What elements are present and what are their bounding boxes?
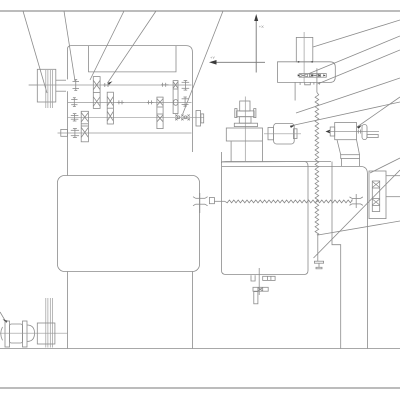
base floor line — [0, 348, 400, 350]
leader to Y-feed motor arrow — [357, 97, 400, 129]
idler square shaft IV — [61, 129, 68, 136]
spline coupling shaft I a — [103, 83, 109, 87]
belt lines lower — [46, 298, 53, 348]
belt pulley block P1 — [37, 69, 56, 102]
vertical elevating screw zigzag — [315, 92, 319, 235]
Y motor coupling ticks — [358, 130, 360, 134]
table surface line and saddle — [222, 166, 367, 348]
border frame bottom line — [0, 387, 400, 389]
Y motor body — [335, 123, 357, 140]
gear hub symbol shaft II left — [71, 98, 77, 107]
border frame top line — [0, 10, 400, 12]
leader to right gearbox — [370, 158, 400, 173]
shaft I centerline — [29, 84, 192, 86]
spline coupling shaft I b — [161, 83, 169, 87]
Y motor centerline — [329, 131, 379, 133]
gear hub symbol shaft I left — [73, 80, 80, 91]
Y motor support sides — [342, 159, 360, 167]
milling head block — [278, 62, 336, 83]
shaft IV centerline — [58, 132, 192, 134]
head lower edge line — [294, 82, 296, 100]
leader to vertical screw bottom — [318, 221, 400, 235]
column-to-pulley stub upper — [56, 79, 66, 81]
coordinate axis Y arrow — [209, 60, 265, 65]
X-drive top post — [240, 101, 250, 111]
knee rounded outline — [222, 162, 332, 275]
gear mesh arrows head — [298, 74, 326, 76]
leader to belt pulley P1 — [23, 11, 47, 93]
lower belt pulley box — [37, 323, 55, 344]
svg-text:+Y: +Y — [210, 55, 215, 60]
pulley centerline tick — [29, 84, 38, 86]
Y motor step — [330, 127, 335, 136]
gear cluster B4 shafts II-III — [157, 97, 163, 129]
spline coupling shaft II a — [118, 100, 125, 104]
Y motor arrow — [326, 130, 331, 134]
leader to knee clamp — [314, 170, 400, 258]
column lower-right wall — [191, 272, 193, 349]
Y motor capsule flange — [362, 125, 367, 140]
fixed gear symbol shaft II wall — [182, 97, 189, 106]
spindle centerline — [303, 32, 305, 82]
Y motor key bar — [367, 135, 378, 138]
Y leadscrew nut square — [209, 198, 214, 204]
Y leadscrew right bearing — [350, 194, 363, 208]
right gearbox output line upper — [386, 175, 400, 177]
X motor body — [274, 123, 295, 144]
X-drive flanged bar — [235, 109, 256, 118]
Y leadscrew left bearing — [193, 193, 208, 213]
X motor end cap — [293, 129, 297, 139]
leader to main motor arrow — [0, 312, 8, 323]
X-drive centerline — [244, 97, 246, 163]
leader to vertical screw top — [318, 50, 400, 84]
Y motor neck — [337, 140, 360, 155]
handwheel coupling shaft III — [196, 111, 204, 127]
bearing marks under head — [300, 82, 319, 85]
Y leadscrew stub line — [214, 200, 225, 202]
Y leadscrew zigzag — [225, 200, 352, 203]
elevating screw post — [254, 292, 258, 304]
column-to-pulley stub lower — [56, 90, 66, 92]
vertical spindle head rect — [296, 37, 313, 61]
main motor D cap — [27, 325, 35, 341]
main motor end plate left — [5, 321, 10, 347]
bevel gear bar in head — [299, 74, 326, 78]
X motor centerline — [264, 133, 301, 135]
leader to gear cluster B1 — [90, 11, 124, 80]
coordinate axis Z arrow — [254, 14, 258, 73]
knee clamp bracket — [314, 235, 323, 269]
fixed gear symbol shaft I wall — [182, 81, 190, 91]
X motor front cap — [268, 128, 274, 140]
step bracket left — [251, 275, 255, 281]
leader to X-feed motor arrow — [290, 102, 400, 128]
Y motor neck flange — [341, 155, 360, 159]
gear hub symbol shaft III left — [71, 114, 79, 121]
column left wall lower — [67, 91, 69, 175]
clutch ball symbols shaft III — [175, 115, 190, 121]
shaft III centerline — [68, 116, 205, 118]
leader to shaft I arrow — [108, 11, 157, 85]
gear hub symbol shaft IV — [71, 129, 79, 138]
leader to spindle S1 — [313, 20, 400, 47]
elevating gear X bar — [253, 287, 268, 291]
main motor body — [10, 324, 23, 343]
main motor end plate right — [23, 321, 28, 347]
shaft II centerline — [68, 101, 192, 103]
leader to head lower edge — [296, 78, 400, 113]
machine column outline — [68, 46, 193, 152]
gear cluster B2 shafts II-III — [107, 92, 113, 124]
right feed gearbox — [369, 171, 386, 219]
right gearbox output line lower — [386, 196, 400, 198]
X-drive gearbox block — [226, 128, 262, 141]
vertical guide line right of knee — [332, 162, 341, 349]
leader to clutch symbols shaft III — [183, 11, 224, 115]
X-drive thin bar — [234, 123, 257, 126]
belt lines upper — [46, 70, 53, 108]
vertical feed shaft below knee — [258, 268, 260, 295]
leader to gear Z1 — [64, 11, 75, 81]
gear cluster B1 shafts I-II — [93, 77, 100, 109]
knee left wall stub — [221, 152, 223, 163]
feed gearbox rounded housing — [58, 176, 200, 272]
X-drive support block — [239, 117, 251, 124]
column lower-left wall — [67, 272, 69, 349]
spline coupling shaft II b — [147, 100, 154, 104]
head top edge mesh ticks — [298, 61, 313, 63]
leader to bevel gear bar — [308, 36, 400, 74]
X-drive pedestal — [231, 141, 262, 161]
gear cluster B3 shaft I-II right — [173, 81, 178, 114]
speed box inner cover rect — [89, 46, 177, 72]
bevel gear bar right — [263, 276, 275, 280]
main motor centerline — [0, 332, 68, 334]
main motor left cap — [1, 327, 3, 340]
svg-text:+X: +X — [259, 24, 264, 29]
vertical screw shaft upper — [316, 68, 318, 92]
gear cluster B5 shafts III-IV — [81, 111, 88, 142]
right gearbox inner shaft — [372, 181, 379, 212]
